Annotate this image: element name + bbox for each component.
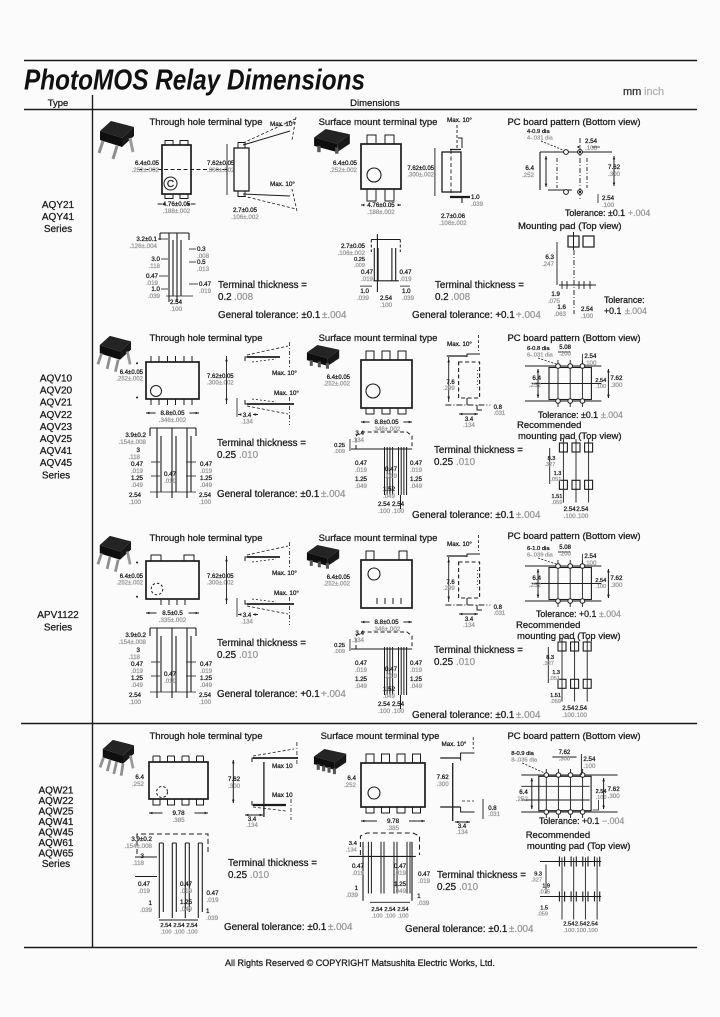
svg-text:All Rights Reserved © COPYRIGH: All Rights Reserved © COPYRIGHT Matsushi… xyxy=(225,958,495,968)
svg-text:.100: .100 xyxy=(129,699,142,706)
svg-text:AQV22: AQV22 xyxy=(40,410,73,421)
svg-text:0.25: 0.25 xyxy=(434,457,454,468)
svg-text:Mounting pad (Top view): Mounting pad (Top view) xyxy=(518,221,622,232)
svg-text:±.004: ±.004 xyxy=(321,489,346,500)
svg-text:1.9: 1.9 xyxy=(542,884,550,890)
svg-text:.106±.002: .106±.002 xyxy=(338,250,366,257)
svg-text:1.5: 1.5 xyxy=(540,906,548,912)
svg-text:.100: .100 xyxy=(129,499,142,506)
svg-text:±0.1: ±0.1 xyxy=(581,410,598,420)
svg-text:.010: .010 xyxy=(250,870,270,881)
svg-text:.300: .300 xyxy=(610,582,623,589)
svg-text:.039: .039 xyxy=(471,201,484,208)
svg-text:.100: .100 xyxy=(199,499,212,506)
svg-text:.019: .019 xyxy=(355,467,368,474)
svg-text:.019: .019 xyxy=(400,276,413,283)
svg-text:.051: .051 xyxy=(549,676,560,682)
svg-text:.100: .100 xyxy=(584,560,597,567)
svg-text:.134: .134 xyxy=(346,847,358,853)
svg-text:.019: .019 xyxy=(131,468,144,475)
svg-text:mounting pad (Top view): mounting pad (Top view) xyxy=(517,631,621,642)
svg-text:Series: Series xyxy=(44,224,72,235)
svg-text:.049: .049 xyxy=(383,493,396,500)
svg-text:.300±.002: .300±.002 xyxy=(207,167,235,174)
svg-text:Max. 10°: Max. 10° xyxy=(274,389,299,397)
svg-text:.049: .049 xyxy=(355,683,368,690)
svg-text:.154±.008: .154±.008 xyxy=(119,639,147,646)
svg-text:.100: .100 xyxy=(564,513,577,520)
svg-text:.100: .100 xyxy=(378,508,391,515)
svg-text:.100: .100 xyxy=(595,584,606,590)
svg-text:.252: .252 xyxy=(516,796,529,803)
svg-text:.100: .100 xyxy=(173,929,184,935)
svg-text:.300: .300 xyxy=(228,783,241,790)
svg-text:0.25: 0.25 xyxy=(228,870,248,881)
svg-text:9.78: 9.78 xyxy=(387,818,400,825)
svg-text:.019: .019 xyxy=(138,888,151,895)
svg-text:.385: .385 xyxy=(387,825,400,832)
svg-text:0.25: 0.25 xyxy=(434,657,454,668)
svg-text:6.4±0.05: 6.4±0.05 xyxy=(327,375,351,381)
svg-text:.008: .008 xyxy=(234,292,254,303)
svg-text:.134: .134 xyxy=(246,823,258,829)
svg-text:Through hole terminal type: Through hole terminal type xyxy=(149,117,262,128)
svg-text:.188±.002: .188±.002 xyxy=(367,209,395,216)
svg-text:8.8±0.05: 8.8±0.05 xyxy=(160,410,185,417)
svg-text:.019: .019 xyxy=(355,667,368,674)
svg-text:.126±.004: .126±.004 xyxy=(130,243,158,250)
svg-text:.049: .049 xyxy=(131,682,144,689)
svg-text:0.25: 0.25 xyxy=(437,882,457,893)
svg-text:.252: .252 xyxy=(529,382,542,389)
svg-text:3.4: 3.4 xyxy=(243,613,252,619)
svg-text:.106±.002: .106±.002 xyxy=(439,220,467,227)
svg-text:.299: .299 xyxy=(443,386,455,392)
svg-text:.019: .019 xyxy=(418,878,431,885)
svg-text:.031: .031 xyxy=(494,411,506,417)
svg-text:.299: .299 xyxy=(443,586,455,592)
svg-text:.010: .010 xyxy=(459,882,479,893)
svg-text:.252±.002: .252±.002 xyxy=(116,377,143,383)
svg-text:.100: .100 xyxy=(392,708,405,715)
svg-text:9.3: 9.3 xyxy=(534,872,542,878)
svg-text:7.62: 7.62 xyxy=(559,750,571,756)
svg-text:.300: .300 xyxy=(437,781,450,788)
svg-text:.134: .134 xyxy=(463,423,475,429)
svg-text:+.004: +.004 xyxy=(321,689,346,700)
svg-text:Terminal thickness =: Terminal thickness = xyxy=(434,645,523,656)
svg-text:.252±.002: .252±.002 xyxy=(330,167,358,174)
svg-text:Terminal thickness =: Terminal thickness = xyxy=(217,638,306,649)
svg-text:.100: .100 xyxy=(371,913,382,919)
svg-text:9.78: 9.78 xyxy=(172,810,185,817)
svg-text:.100: .100 xyxy=(170,306,183,313)
svg-text:0.25: 0.25 xyxy=(334,443,345,449)
svg-text:8.8±0.05: 8.8±0.05 xyxy=(374,619,399,626)
svg-text:6.4±0.05: 6.4±0.05 xyxy=(120,574,144,580)
svg-text:mm: mm xyxy=(623,86,641,98)
svg-text:AQW41: AQW41 xyxy=(38,817,73,828)
svg-text:.100: .100 xyxy=(199,699,212,706)
svg-text:.100: .100 xyxy=(584,360,597,367)
svg-text:0.2: 0.2 xyxy=(435,292,449,303)
svg-text:.039: .039 xyxy=(402,295,415,302)
svg-text:.019: .019 xyxy=(410,467,423,474)
svg-text:7.62±0.05: 7.62±0.05 xyxy=(207,574,234,580)
svg-text:mounting pad (Top view): mounting pad (Top view) xyxy=(518,431,622,442)
svg-text:inch: inch xyxy=(644,86,664,98)
svg-text:±.004: ±.004 xyxy=(625,306,647,316)
svg-text:2.54: 2.54 xyxy=(173,923,185,929)
svg-text:.252: .252 xyxy=(344,782,357,789)
svg-text:.010: .010 xyxy=(239,650,259,661)
svg-text:.100: .100 xyxy=(563,928,574,934)
svg-text:6.4±0.05: 6.4±0.05 xyxy=(327,575,351,581)
svg-text:.031: .031 xyxy=(488,812,500,818)
svg-text:.059: .059 xyxy=(552,500,563,506)
svg-text:Through hole terminal type: Through hole terminal type xyxy=(149,333,262,344)
svg-text:.049: .049 xyxy=(200,682,213,689)
svg-text:General tolerance: ±0.1: General tolerance: ±0.1 xyxy=(412,710,514,721)
svg-text:.247: .247 xyxy=(542,261,555,268)
svg-text:Tolerance:: Tolerance: xyxy=(536,609,577,619)
svg-text:.008: .008 xyxy=(451,292,471,303)
svg-text:Terminal thickness =: Terminal thickness = xyxy=(437,870,526,881)
svg-text:+.004: +.004 xyxy=(628,208,650,218)
svg-text:Max. 10°: Max. 10° xyxy=(270,120,295,128)
svg-text:2.54: 2.54 xyxy=(587,922,599,928)
svg-text:.100: .100 xyxy=(576,513,589,520)
svg-text:.300: .300 xyxy=(610,382,623,389)
svg-text:Surface mount terminal type: Surface mount terminal type xyxy=(319,117,438,128)
svg-text:.134: .134 xyxy=(241,420,253,426)
svg-text:0.25: 0.25 xyxy=(334,643,345,649)
svg-text:.100: .100 xyxy=(562,712,575,719)
svg-text:.100: .100 xyxy=(587,928,598,934)
svg-text:.100: .100 xyxy=(160,929,171,935)
svg-text:.010: .010 xyxy=(239,450,259,461)
svg-text:.100: .100 xyxy=(378,708,391,715)
svg-text:±.004: ±.004 xyxy=(516,710,541,721)
svg-text:Max. 10°: Max. 10° xyxy=(270,180,295,188)
svg-text:Recommended: Recommended xyxy=(516,620,580,631)
svg-text:.019: .019 xyxy=(352,870,365,877)
svg-text:PC board pattern (Bottom view): PC board pattern (Bottom view) xyxy=(507,333,640,344)
svg-text:.049: .049 xyxy=(410,483,423,490)
svg-text:.019: .019 xyxy=(164,678,177,685)
svg-text:Through hole terminal type: Through hole terminal type xyxy=(149,731,262,742)
svg-text:.327: .327 xyxy=(545,462,556,468)
svg-text:.300±.002: .300±.002 xyxy=(407,173,434,179)
svg-text:.039: .039 xyxy=(206,915,219,922)
svg-text:.019: .019 xyxy=(385,473,398,480)
svg-text:Through hole terminal type: Through hole terminal type xyxy=(149,533,262,544)
svg-text:.009: .009 xyxy=(334,449,345,455)
svg-text:.252: .252 xyxy=(522,172,535,179)
svg-text:.019: .019 xyxy=(361,276,374,283)
svg-text:.300±.002: .300±.002 xyxy=(207,581,234,587)
svg-text:.134: .134 xyxy=(241,620,253,626)
svg-text:.385: .385 xyxy=(172,817,185,824)
svg-text:.188±.002: .188±.002 xyxy=(163,208,191,215)
svg-text:.059: .059 xyxy=(537,912,548,918)
svg-text:5.08: 5.08 xyxy=(559,345,571,351)
svg-text:Terminal thickness =: Terminal thickness = xyxy=(228,858,317,869)
svg-text:.019: .019 xyxy=(164,478,177,485)
svg-text:.019: .019 xyxy=(207,897,220,904)
svg-text:AQW22: AQW22 xyxy=(38,796,73,807)
svg-text:.300±.002: .300±.002 xyxy=(207,381,234,387)
svg-text:.039: .039 xyxy=(140,907,153,914)
svg-text:PhotoMOS Relay Dimensions: PhotoMOS Relay Dimensions xyxy=(24,65,365,97)
svg-text:0.2: 0.2 xyxy=(218,292,232,303)
svg-text:AQV20: AQV20 xyxy=(40,386,73,397)
svg-text:7.62±0.05: 7.62±0.05 xyxy=(407,166,434,172)
svg-text:.252±.002: .252±.002 xyxy=(323,582,350,588)
svg-text:.039: .039 xyxy=(357,295,370,302)
svg-text:AQV10: AQV10 xyxy=(40,374,73,385)
svg-text:6-.039 dia: 6-.039 dia xyxy=(527,553,554,559)
svg-text:AQW45: AQW45 xyxy=(38,827,73,838)
svg-text:.049: .049 xyxy=(383,693,396,700)
svg-text:PC board pattern (Bottom view): PC board pattern (Bottom view) xyxy=(507,531,640,542)
svg-text:General tolerance: ±0.1: General tolerance: ±0.1 xyxy=(412,510,514,521)
svg-text:.100: .100 xyxy=(397,913,408,919)
svg-text:.049: .049 xyxy=(394,888,407,895)
svg-text:+0.1: +0.1 xyxy=(604,306,621,316)
svg-text:PC board pattern (Bottom view): PC board pattern (Bottom view) xyxy=(507,117,640,128)
svg-text:Max. 10°: Max. 10° xyxy=(272,369,297,377)
svg-text:.063: .063 xyxy=(554,311,567,318)
svg-text:Max. 10°: Max. 10° xyxy=(447,116,472,124)
svg-text:0.25: 0.25 xyxy=(217,450,237,461)
svg-text:.118: .118 xyxy=(132,860,144,867)
svg-text:Type: Type xyxy=(48,98,69,109)
svg-text:.300: .300 xyxy=(559,757,571,763)
svg-text:Max. 10°: Max. 10° xyxy=(274,589,299,597)
svg-text:1.3: 1.3 xyxy=(552,670,560,676)
svg-text:.019: .019 xyxy=(131,668,144,675)
svg-text:AQV41: AQV41 xyxy=(40,446,73,457)
svg-text:AQW21: AQW21 xyxy=(38,786,73,797)
svg-text:Terminal thickness =: Terminal thickness = xyxy=(435,280,524,291)
svg-text:Tolerance:: Tolerance: xyxy=(604,295,645,305)
svg-text:PC board pattern (Bottom view): PC board pattern (Bottom view) xyxy=(507,731,640,742)
svg-text:Max. 10°: Max. 10° xyxy=(447,540,472,548)
svg-text:.300: .300 xyxy=(608,793,621,800)
svg-text:.200: .200 xyxy=(559,352,571,358)
svg-text:AQV25: AQV25 xyxy=(40,434,73,445)
svg-text:.049: .049 xyxy=(200,482,213,489)
svg-text:.252: .252 xyxy=(529,582,542,589)
svg-text:.100: .100 xyxy=(384,913,395,919)
svg-text:5.08: 5.08 xyxy=(559,545,571,551)
svg-text:+0.1: +0.1 xyxy=(582,816,599,826)
svg-text:Tolerance:: Tolerance: xyxy=(539,816,580,826)
svg-text:.049: .049 xyxy=(355,483,368,490)
svg-text:7.62±0.05: 7.62±0.05 xyxy=(207,374,234,380)
svg-text:.327: .327 xyxy=(531,878,542,884)
svg-text:±.004: ±.004 xyxy=(322,310,347,321)
svg-text:AQW61: AQW61 xyxy=(38,838,73,849)
svg-text:6-0.8 dia: 6-0.8 dia xyxy=(527,346,550,352)
svg-text:Surface mount terminal type: Surface mount terminal type xyxy=(319,333,438,344)
svg-text:.059: .059 xyxy=(550,699,561,705)
svg-text:0.25: 0.25 xyxy=(354,257,365,263)
svg-text:Series: Series xyxy=(44,623,72,634)
svg-text:.100: .100 xyxy=(186,929,197,935)
svg-text:Series: Series xyxy=(42,470,70,481)
svg-text:±.004: ±.004 xyxy=(328,922,353,933)
svg-text:.019: .019 xyxy=(394,870,407,877)
svg-text:±.004: ±.004 xyxy=(601,410,623,420)
svg-text:.039: .039 xyxy=(417,900,430,907)
svg-text:4-0.9 dia: 4-0.9 dia xyxy=(527,129,550,135)
svg-text:8.3: 8.3 xyxy=(546,655,554,661)
svg-text:General tolerance: ±0.1: General tolerance: ±0.1 xyxy=(224,922,326,933)
svg-text:.010: .010 xyxy=(456,657,476,668)
svg-text:.075: .075 xyxy=(539,890,550,896)
svg-text:mounting pad (Top view): mounting pad (Top view) xyxy=(527,841,631,852)
svg-text:Terminal thickness =: Terminal thickness = xyxy=(218,280,307,291)
svg-text:Tolerance:: Tolerance: xyxy=(565,208,606,218)
svg-text:.019: .019 xyxy=(180,888,193,895)
svg-text:Max. 10°: Max. 10° xyxy=(447,340,472,348)
svg-text:Recommended: Recommended xyxy=(526,830,590,841)
svg-text:.118: .118 xyxy=(128,454,140,461)
svg-text:.100: .100 xyxy=(583,763,596,770)
svg-text:.327: .327 xyxy=(543,661,554,667)
svg-text:AQW65: AQW65 xyxy=(38,848,73,859)
svg-text:Series: Series xyxy=(42,859,70,870)
svg-text:.118: .118 xyxy=(148,263,160,270)
svg-text:6-1.0 dia: 6-1.0 dia xyxy=(527,546,550,552)
svg-text:General tolerance: +0.1: General tolerance: +0.1 xyxy=(412,310,515,321)
svg-text:AQV23: AQV23 xyxy=(40,422,73,433)
svg-text:2.54: 2.54 xyxy=(595,578,606,584)
svg-text:.019: .019 xyxy=(385,673,398,680)
svg-text:±.004: ±.004 xyxy=(516,510,541,521)
svg-text:8-.035 dia: 8-.035 dia xyxy=(511,758,538,764)
svg-text:.200: .200 xyxy=(559,552,571,558)
svg-text:.100: .100 xyxy=(392,508,405,515)
svg-text:General tolerance: +0.1: General tolerance: +0.1 xyxy=(217,689,320,700)
svg-text:.100: .100 xyxy=(585,145,598,152)
svg-text:.134: .134 xyxy=(352,637,365,644)
svg-text:.106±.002: .106±.002 xyxy=(231,214,259,221)
svg-text:.051: .051 xyxy=(551,477,562,483)
svg-text:.100: .100 xyxy=(575,928,586,934)
svg-text:AQY21: AQY21 xyxy=(42,200,75,211)
svg-text:.100: .100 xyxy=(380,302,393,309)
svg-text:.346±.002: .346±.002 xyxy=(159,417,187,424)
svg-text:.009: .009 xyxy=(334,649,345,655)
svg-text:4.76±0.05: 4.76±0.05 xyxy=(367,202,395,209)
svg-text:2.54: 2.54 xyxy=(371,907,383,913)
svg-text:Surface mount terminal type: Surface mount terminal type xyxy=(321,731,440,742)
svg-text:2.54: 2.54 xyxy=(384,907,396,913)
svg-text:.013: .013 xyxy=(197,266,210,273)
svg-text:1.51: 1.51 xyxy=(552,494,563,500)
svg-text:APV1122: APV1122 xyxy=(37,610,79,621)
svg-text:−.004: −.004 xyxy=(602,816,624,826)
svg-text:.134: .134 xyxy=(463,623,475,629)
svg-text:Max 10: Max 10 xyxy=(272,763,293,770)
svg-text:6-.031 dia: 6-.031 dia xyxy=(527,353,554,359)
svg-text:Surface mount terminal type: Surface mount terminal type xyxy=(319,533,438,544)
svg-text:2.54: 2.54 xyxy=(596,789,607,795)
svg-text:Max 10: Max 10 xyxy=(272,792,293,799)
svg-text:2.54: 2.54 xyxy=(160,923,172,929)
svg-text:.252±.002: .252±.002 xyxy=(116,581,143,587)
svg-text:.335±.002: .335±.002 xyxy=(159,617,187,624)
svg-text:.039: .039 xyxy=(346,892,359,899)
svg-text:0.25: 0.25 xyxy=(217,650,237,661)
svg-text:Max. 10°: Max. 10° xyxy=(442,740,467,748)
svg-text:Recommended: Recommended xyxy=(517,420,581,431)
svg-text:8-0.9 dia: 8-0.9 dia xyxy=(511,751,534,757)
svg-text:General tolerance: ±0.1: General tolerance: ±0.1 xyxy=(405,924,507,935)
svg-text:2.54: 2.54 xyxy=(186,923,198,929)
svg-text:2.54: 2.54 xyxy=(595,378,606,384)
svg-text:±.004: ±.004 xyxy=(509,924,534,935)
svg-text:.118: .118 xyxy=(128,654,140,661)
svg-text:±0.1: ±0.1 xyxy=(608,208,625,218)
svg-text:2.54: 2.54 xyxy=(563,922,575,928)
svg-text:.019: .019 xyxy=(200,468,213,475)
svg-text:.154±.008: .154±.008 xyxy=(125,843,153,850)
svg-text:.252±.002: .252±.002 xyxy=(323,382,350,388)
svg-text:.010: .010 xyxy=(456,457,476,468)
svg-text:Terminal thickness =: Terminal thickness = xyxy=(434,445,523,456)
svg-text:1.51: 1.51 xyxy=(550,693,561,699)
svg-text:.100: .100 xyxy=(595,384,606,390)
svg-text:C: C xyxy=(167,179,174,190)
svg-text:+.004: +.004 xyxy=(516,310,541,321)
svg-text:1.3: 1.3 xyxy=(554,471,562,477)
svg-text:Dimensions: Dimensions xyxy=(350,98,400,109)
svg-text:.049: .049 xyxy=(131,482,144,489)
svg-text:.031: .031 xyxy=(494,611,506,617)
svg-text:8.5±0.5: 8.5±0.5 xyxy=(162,610,183,617)
svg-text:3.4: 3.4 xyxy=(243,413,252,419)
svg-text:4-.031 dia: 4-.031 dia xyxy=(527,136,554,142)
svg-text:2.54: 2.54 xyxy=(575,922,587,928)
svg-text:6.4±0.05: 6.4±0.05 xyxy=(120,370,144,376)
svg-text:±.004: ±.004 xyxy=(599,609,621,619)
svg-text:+0.1: +0.1 xyxy=(579,609,596,619)
svg-text:General tolerance: ±0.1: General tolerance: ±0.1 xyxy=(217,489,319,500)
svg-text:.100: .100 xyxy=(581,313,594,320)
svg-text:.049: .049 xyxy=(180,906,193,913)
svg-text:AQY41: AQY41 xyxy=(42,212,75,223)
svg-text:.019: .019 xyxy=(200,668,213,675)
svg-text:AQV45: AQV45 xyxy=(40,458,73,469)
svg-text:.252±.002: .252±.002 xyxy=(132,167,160,174)
svg-text:2.54: 2.54 xyxy=(397,907,409,913)
svg-text:.252: .252 xyxy=(132,781,145,788)
svg-text:Tolerance:: Tolerance: xyxy=(538,410,579,420)
svg-text:AQW25: AQW25 xyxy=(38,806,73,817)
svg-text:Max. 10°: Max. 10° xyxy=(272,569,297,577)
svg-text:.134: .134 xyxy=(352,437,365,444)
svg-text:.154±.008: .154±.008 xyxy=(119,439,147,446)
svg-text:8.3: 8.3 xyxy=(548,456,556,462)
svg-text:8.8±0.05: 8.8±0.05 xyxy=(374,419,399,426)
svg-text:4.76±0.05: 4.76±0.05 xyxy=(163,201,191,208)
svg-text:.100: .100 xyxy=(596,795,607,801)
svg-text:.019: .019 xyxy=(199,288,212,295)
